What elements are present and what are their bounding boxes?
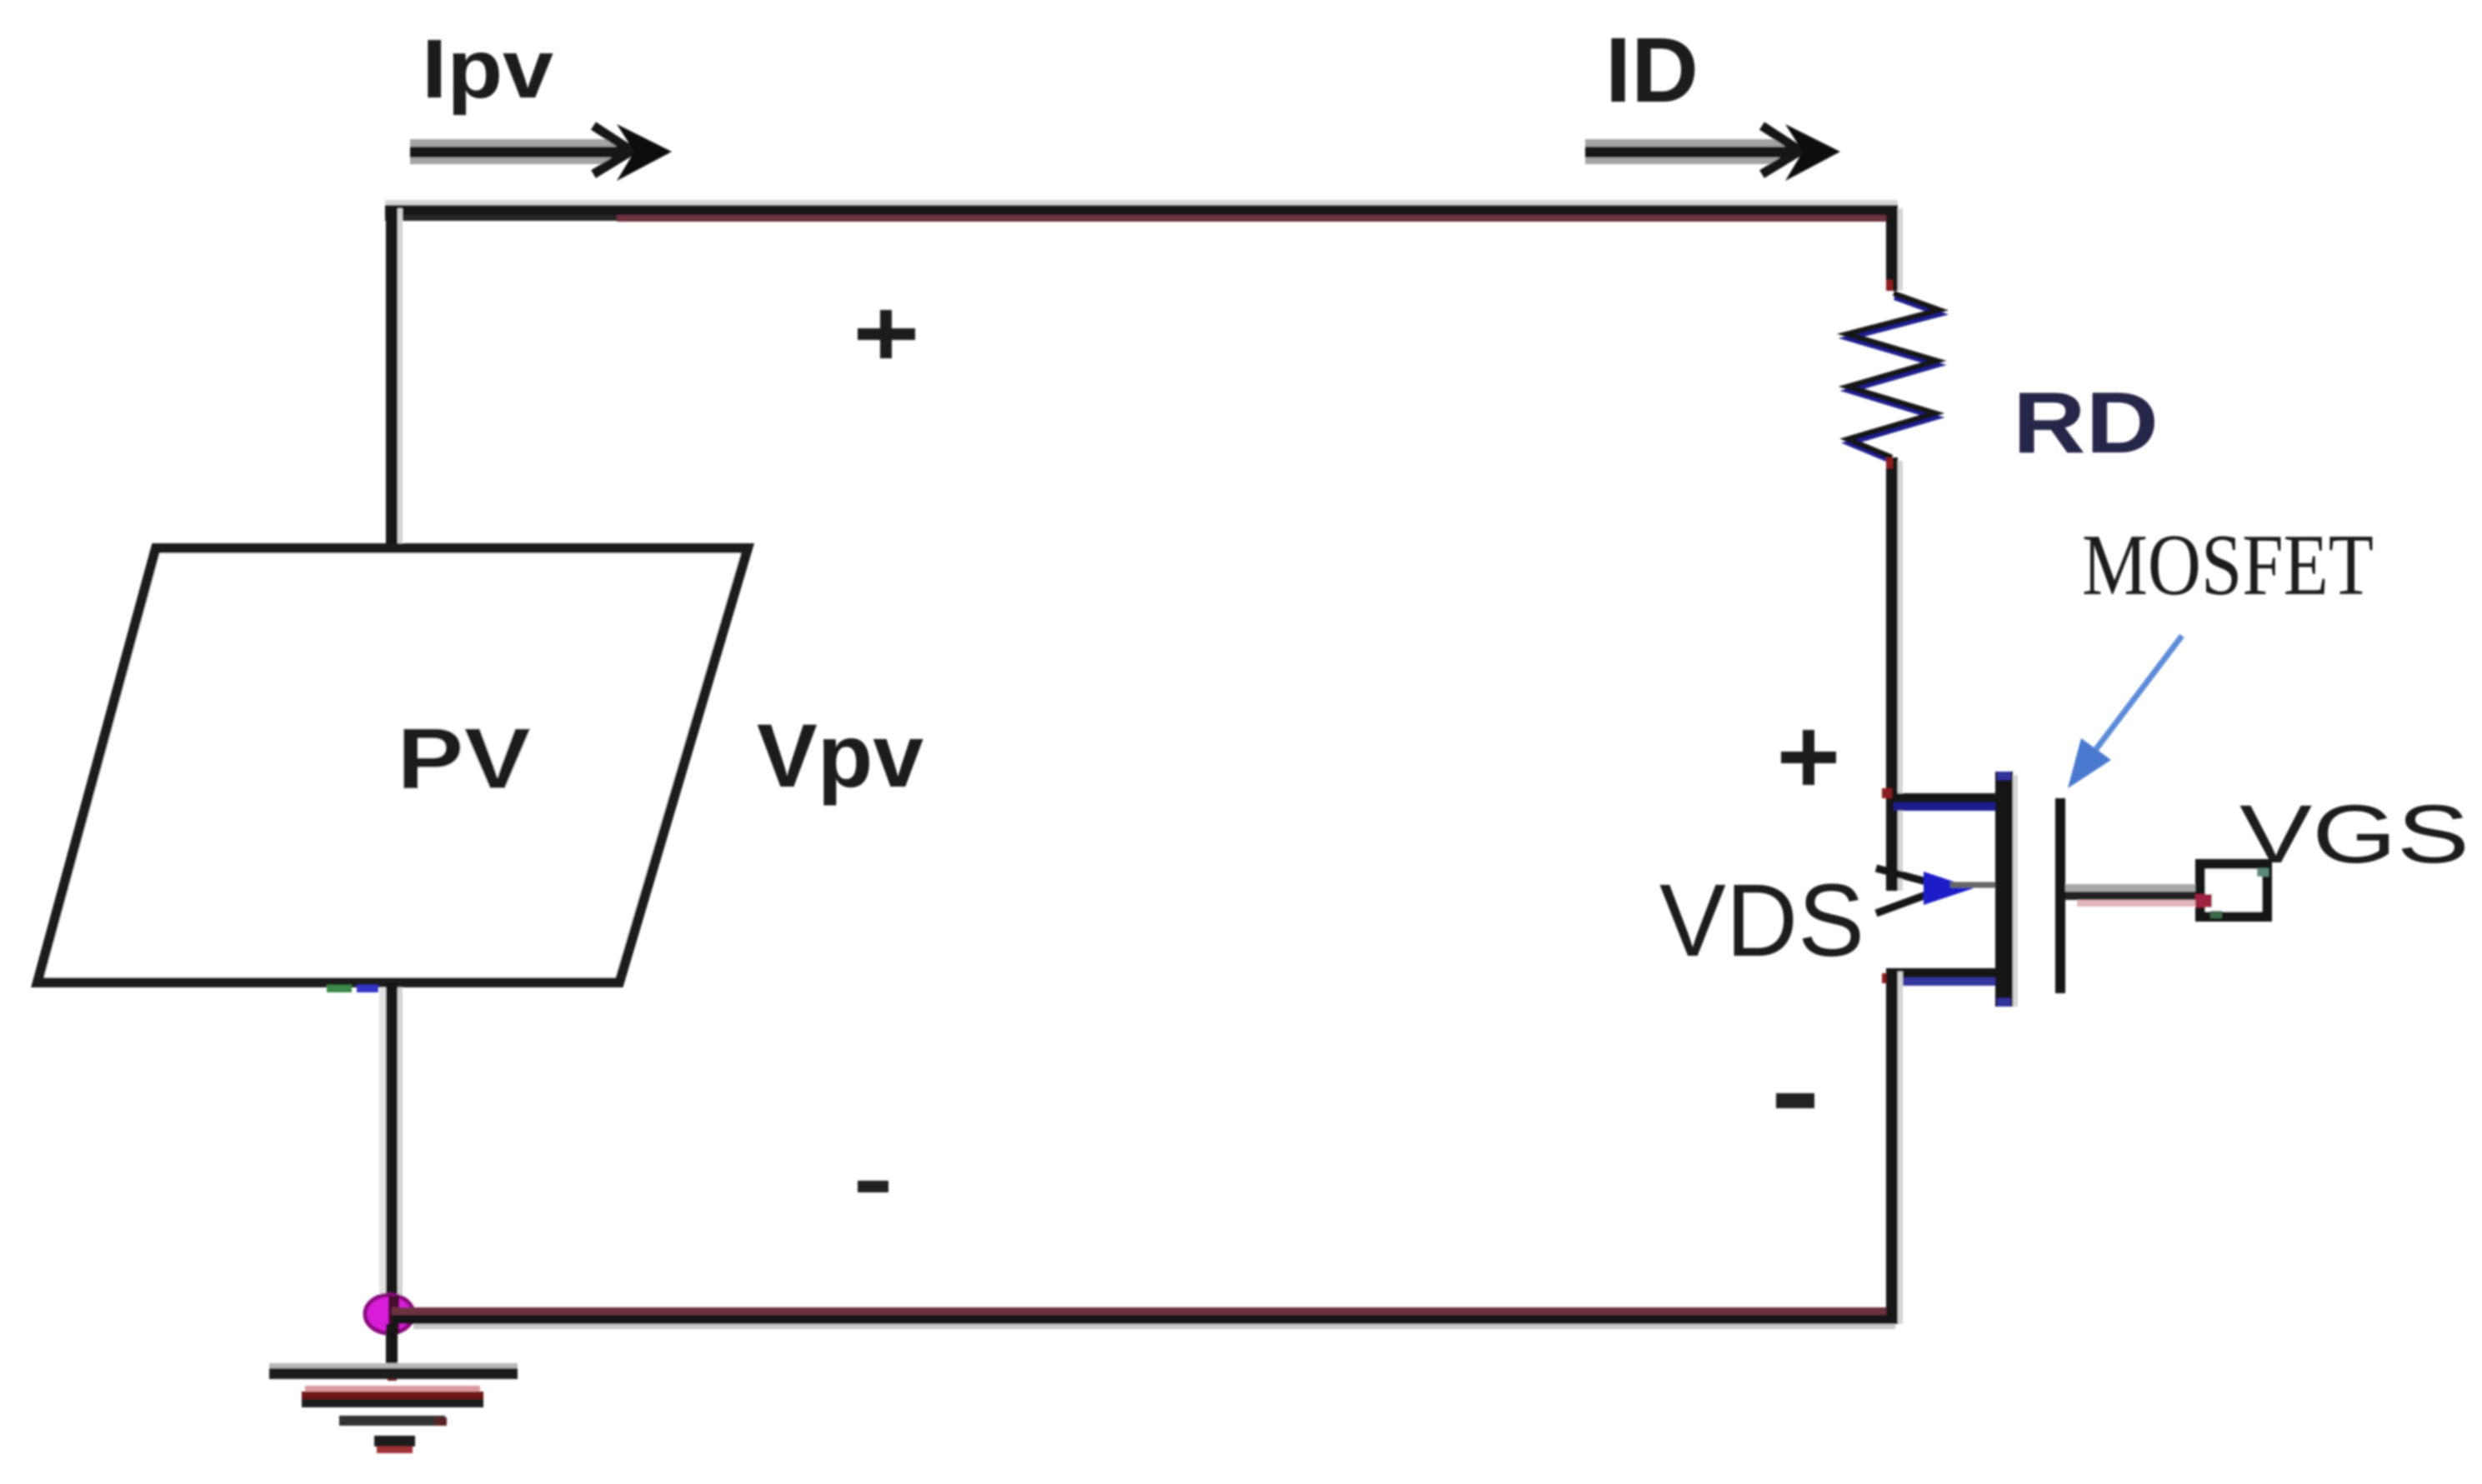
svg-text:Vpv: Vpv [757, 705, 923, 806]
wire bottom horizontal [392, 1307, 1895, 1329]
wire left vertical top [398, 208, 403, 548]
wire right vertical (resistor to MOSFET drain) [1898, 461, 1903, 891]
svg-text:ID: ID [1605, 19, 1699, 122]
MOSFET gate line [2055, 798, 2065, 993]
MOSFET body arrow [1876, 868, 1999, 913]
resistor RD [1847, 293, 1940, 462]
wire right vertical (MOSFET source to bottom) [1898, 972, 1903, 1324]
svg-text:MOSFET: MOSFET [2082, 516, 2374, 613]
minus sign VDS [1776, 1093, 1814, 1108]
VGS terminal box [2200, 864, 2267, 917]
svg-text:VDS: VDS [1659, 864, 1864, 978]
node marks under PV [327, 985, 352, 992]
plus sign VDS [1781, 730, 1836, 785]
ground bar 2 [305, 1386, 480, 1392]
svg-text:PV: PV [397, 711, 531, 807]
MOSFET gate wire to VGS [2065, 884, 2195, 892]
ground bar 1 [269, 1363, 518, 1368]
MOSFET drain stub [1886, 793, 2009, 802]
minus sign center [858, 1181, 888, 1192]
wire right vertical (top to resistor) [1898, 208, 1903, 291]
svg-text:RD: RD [2013, 375, 2159, 472]
current arrow Ipv [410, 124, 672, 181]
wire left vertical bottom [398, 987, 403, 1316]
current arrow ID [1585, 124, 1840, 181]
svg-text:Ipv: Ipv [422, 22, 553, 116]
ground stem [386, 1324, 398, 1379]
svg-text:VGS: VGS [2239, 787, 2469, 880]
wire top horizontal [385, 200, 1898, 222]
plus sign center [858, 310, 915, 358]
MOSFET channel bar [2013, 775, 2018, 1007]
node junction dot [365, 1295, 413, 1333]
ground bar 4 [374, 1436, 415, 1447]
PV panel [38, 548, 748, 982]
ground bar 3 [339, 1416, 445, 1426]
MOSFET source stub [1886, 968, 2009, 977]
MOSFET pointer arrow [2068, 636, 2182, 788]
